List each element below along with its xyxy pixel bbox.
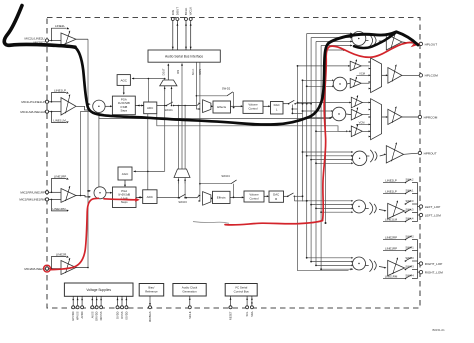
svg-text:R: R bbox=[275, 197, 277, 201]
svg-text:SDA: SDA bbox=[250, 311, 254, 317]
svg-text:Bias/: Bias/ bbox=[148, 285, 154, 289]
svg-text:0/+59.5dB: 0/+59.5dB bbox=[118, 101, 130, 105]
svg-text:Voltage Supplies: Voltage Supplies bbox=[86, 288, 111, 292]
svg-text:LINE2LP: LINE2LP bbox=[385, 179, 397, 183]
svg-text:PGA: PGA bbox=[121, 189, 127, 193]
svg-text:LINE1LM: LINE1LM bbox=[53, 118, 66, 122]
svg-text:SDIN: SDIN bbox=[199, 69, 202, 75]
svg-text:SCLK: SCLK bbox=[192, 68, 195, 75]
svg-text:MIC1LM/LINE1LM: MIC1LM/LINE1LM bbox=[20, 110, 45, 114]
svg-text:SW-L0: SW-L0 bbox=[406, 199, 414, 203]
svg-text:LINE1RP: LINE1RP bbox=[385, 247, 397, 251]
svg-text:LINE2R: LINE2R bbox=[56, 253, 67, 257]
svg-text:HPVSS: HPVSS bbox=[76, 311, 80, 320]
svg-text:Effects: Effects bbox=[217, 105, 226, 109]
svg-text:PGA: PGA bbox=[121, 98, 127, 102]
svg-text:Generation: Generation bbox=[182, 289, 197, 293]
svg-text:DOUT: DOUT bbox=[175, 7, 179, 15]
svg-text:LEFT_LOP: LEFT_LOP bbox=[425, 205, 440, 209]
svg-text:SW-D3: SW-D3 bbox=[178, 200, 187, 204]
svg-text:RESET: RESET bbox=[229, 311, 233, 320]
svg-text:VCM: VCM bbox=[359, 72, 365, 76]
svg-text:DOUT: DOUT bbox=[162, 68, 165, 76]
svg-text:SW-R2: SW-R2 bbox=[405, 234, 414, 238]
svg-text:Control Bus: Control Bus bbox=[234, 289, 250, 293]
svg-text:Effects: Effects bbox=[217, 196, 226, 200]
svg-text:DVDD: DVDD bbox=[116, 311, 120, 318]
svg-text:IOVDD: IOVDD bbox=[124, 311, 128, 319]
svg-text:DVSS: DVSS bbox=[120, 311, 124, 318]
svg-text:AVSS: AVSS bbox=[90, 311, 94, 318]
svg-text:DIN: DIN bbox=[171, 10, 175, 15]
svg-text:LINE1RM: LINE1RM bbox=[385, 275, 398, 279]
svg-text:AVDD: AVDD bbox=[80, 311, 84, 318]
svg-text:SW-L1: SW-L1 bbox=[406, 188, 414, 192]
svg-text:MIC2R/LINE2R: MIC2R/LINE2R bbox=[24, 267, 46, 271]
svg-text:DRVDD: DRVDD bbox=[95, 311, 99, 320]
svg-text:HPLCOM: HPLCOM bbox=[425, 74, 439, 78]
svg-text:LINE2L: LINE2L bbox=[55, 24, 65, 28]
svg-text:DRVSS: DRVSS bbox=[99, 311, 103, 320]
svg-text:MIC1RM/LINE1RM: MIC1RM/LINE1RM bbox=[19, 198, 45, 202]
svg-text:LINE1LP: LINE1LP bbox=[54, 89, 66, 93]
svg-text:SW-D2: SW-D2 bbox=[222, 86, 231, 90]
svg-text:HPLOUT: HPLOUT bbox=[425, 42, 438, 46]
svg-text:SW-R3: SW-R3 bbox=[405, 264, 414, 268]
svg-text:SW-L4: SW-L4 bbox=[406, 216, 414, 220]
svg-text:RIGHT_LOM: RIGHT_LOM bbox=[425, 270, 443, 274]
svg-text:SW-R0: SW-R0 bbox=[405, 256, 414, 260]
svg-text:LINE2RP: LINE2RP bbox=[385, 236, 397, 240]
svg-text:MCLK: MCLK bbox=[188, 311, 192, 318]
svg-text:SW-R4: SW-R4 bbox=[405, 273, 414, 277]
svg-text:LINE1LM: LINE1LM bbox=[385, 218, 398, 222]
svg-text:SW-L2: SW-L2 bbox=[406, 177, 414, 181]
svg-text:SW-D4: SW-D4 bbox=[221, 174, 230, 178]
svg-text:LINE1RP: LINE1RP bbox=[54, 175, 67, 179]
svg-text:Steps: Steps bbox=[120, 108, 127, 112]
svg-text:ADC: ADC bbox=[147, 106, 154, 110]
svg-text:Control: Control bbox=[249, 196, 258, 200]
svg-text:DAC: DAC bbox=[274, 103, 280, 107]
svg-text:AGC: AGC bbox=[120, 78, 127, 82]
svg-text:VCM: VCM bbox=[359, 121, 365, 125]
svg-text:HPROUT: HPROUT bbox=[424, 151, 437, 155]
svg-text:Control: Control bbox=[248, 107, 257, 111]
svg-text:AGC: AGC bbox=[122, 172, 129, 176]
svg-text:SCL: SCL bbox=[245, 311, 249, 317]
svg-text:BCLK: BCLK bbox=[184, 8, 188, 16]
svg-text:ADC: ADC bbox=[147, 195, 154, 199]
svg-text:WCLK: WCLK bbox=[189, 7, 193, 15]
svg-text:LEFT_LOM: LEFT_LOM bbox=[425, 213, 441, 217]
svg-text:MICBIAS: MICBIAS bbox=[148, 311, 152, 322]
svg-text:DIN: DIN bbox=[177, 70, 180, 75]
svg-text:B0151-01: B0151-01 bbox=[433, 328, 446, 332]
svg-text:RIGHT_LOP: RIGHT_LOP bbox=[425, 262, 443, 266]
svg-text:0.5dB: 0.5dB bbox=[120, 105, 127, 109]
svg-text:SW-R1: SW-R1 bbox=[405, 245, 414, 249]
svg-text:0/+59.5dB: 0/+59.5dB bbox=[118, 193, 130, 197]
svg-text:Steps: Steps bbox=[121, 200, 128, 204]
svg-text:Audio Serial Bus Interface: Audio Serial Bus Interface bbox=[165, 55, 203, 59]
svg-text:LINE1LP: LINE1LP bbox=[385, 190, 397, 194]
svg-text:MIC1LP/LINE1LP: MIC1LP/LINE1LP bbox=[21, 100, 45, 104]
svg-text:SW-L3: SW-L3 bbox=[406, 207, 414, 211]
svg-text:HPRCOM: HPRCOM bbox=[424, 115, 438, 119]
svg-text:Reference: Reference bbox=[145, 289, 158, 293]
svg-text:HPVDD: HPVDD bbox=[71, 311, 75, 320]
svg-text:MIC1RP/LINE1RP: MIC1RP/LINE1RP bbox=[20, 191, 45, 195]
svg-text:LINE1RM: LINE1RM bbox=[52, 207, 66, 211]
svg-text:SW-D1: SW-D1 bbox=[164, 108, 173, 112]
